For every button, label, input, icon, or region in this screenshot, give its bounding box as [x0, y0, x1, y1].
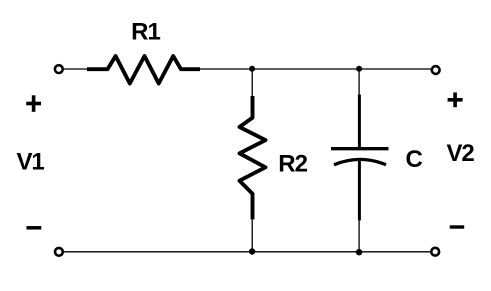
svg-text:V1: V1 — [17, 149, 45, 176]
terminal V1- — [55, 248, 63, 256]
node junction top C — [356, 66, 362, 72]
node junction top R2 — [249, 66, 255, 72]
capacitor C — [331, 95, 389, 221]
svg-text:R1: R1 — [131, 18, 160, 45]
terminal V2+ — [432, 66, 440, 74]
svg-text:C: C — [406, 146, 423, 173]
wire capacitor top — [358, 69, 360, 95]
svg-text:R2: R2 — [278, 151, 307, 178]
label R1 — [131, 18, 160, 45]
label R2 — [278, 151, 307, 178]
terminal V2- — [431, 248, 439, 256]
label V2 — [447, 140, 475, 167]
svg-text:V2: V2 — [447, 140, 475, 167]
resistor R1 — [87, 56, 200, 84]
terminal V1+ — [55, 65, 63, 73]
plus sign left — [26, 95, 41, 112]
node junction bottom C — [356, 249, 362, 255]
minus sign left — [27, 226, 42, 230]
wire capacitor bottom — [358, 220, 360, 252]
minus sign right — [450, 225, 465, 228]
label C — [406, 146, 423, 173]
node junction bottom R2 — [249, 248, 255, 254]
wire bottom rail — [63, 251, 431, 253]
wire top-right: R1 to V2+ terminal — [199, 68, 432, 70]
wire R2 top — [251, 69, 253, 97]
resistor R2 — [240, 96, 266, 219]
wire R2 bottom — [251, 219, 253, 252]
label V1 — [17, 149, 45, 176]
plus sign right — [448, 92, 463, 107]
wire top-left: V1+ terminal to R1 — [63, 68, 90, 70]
